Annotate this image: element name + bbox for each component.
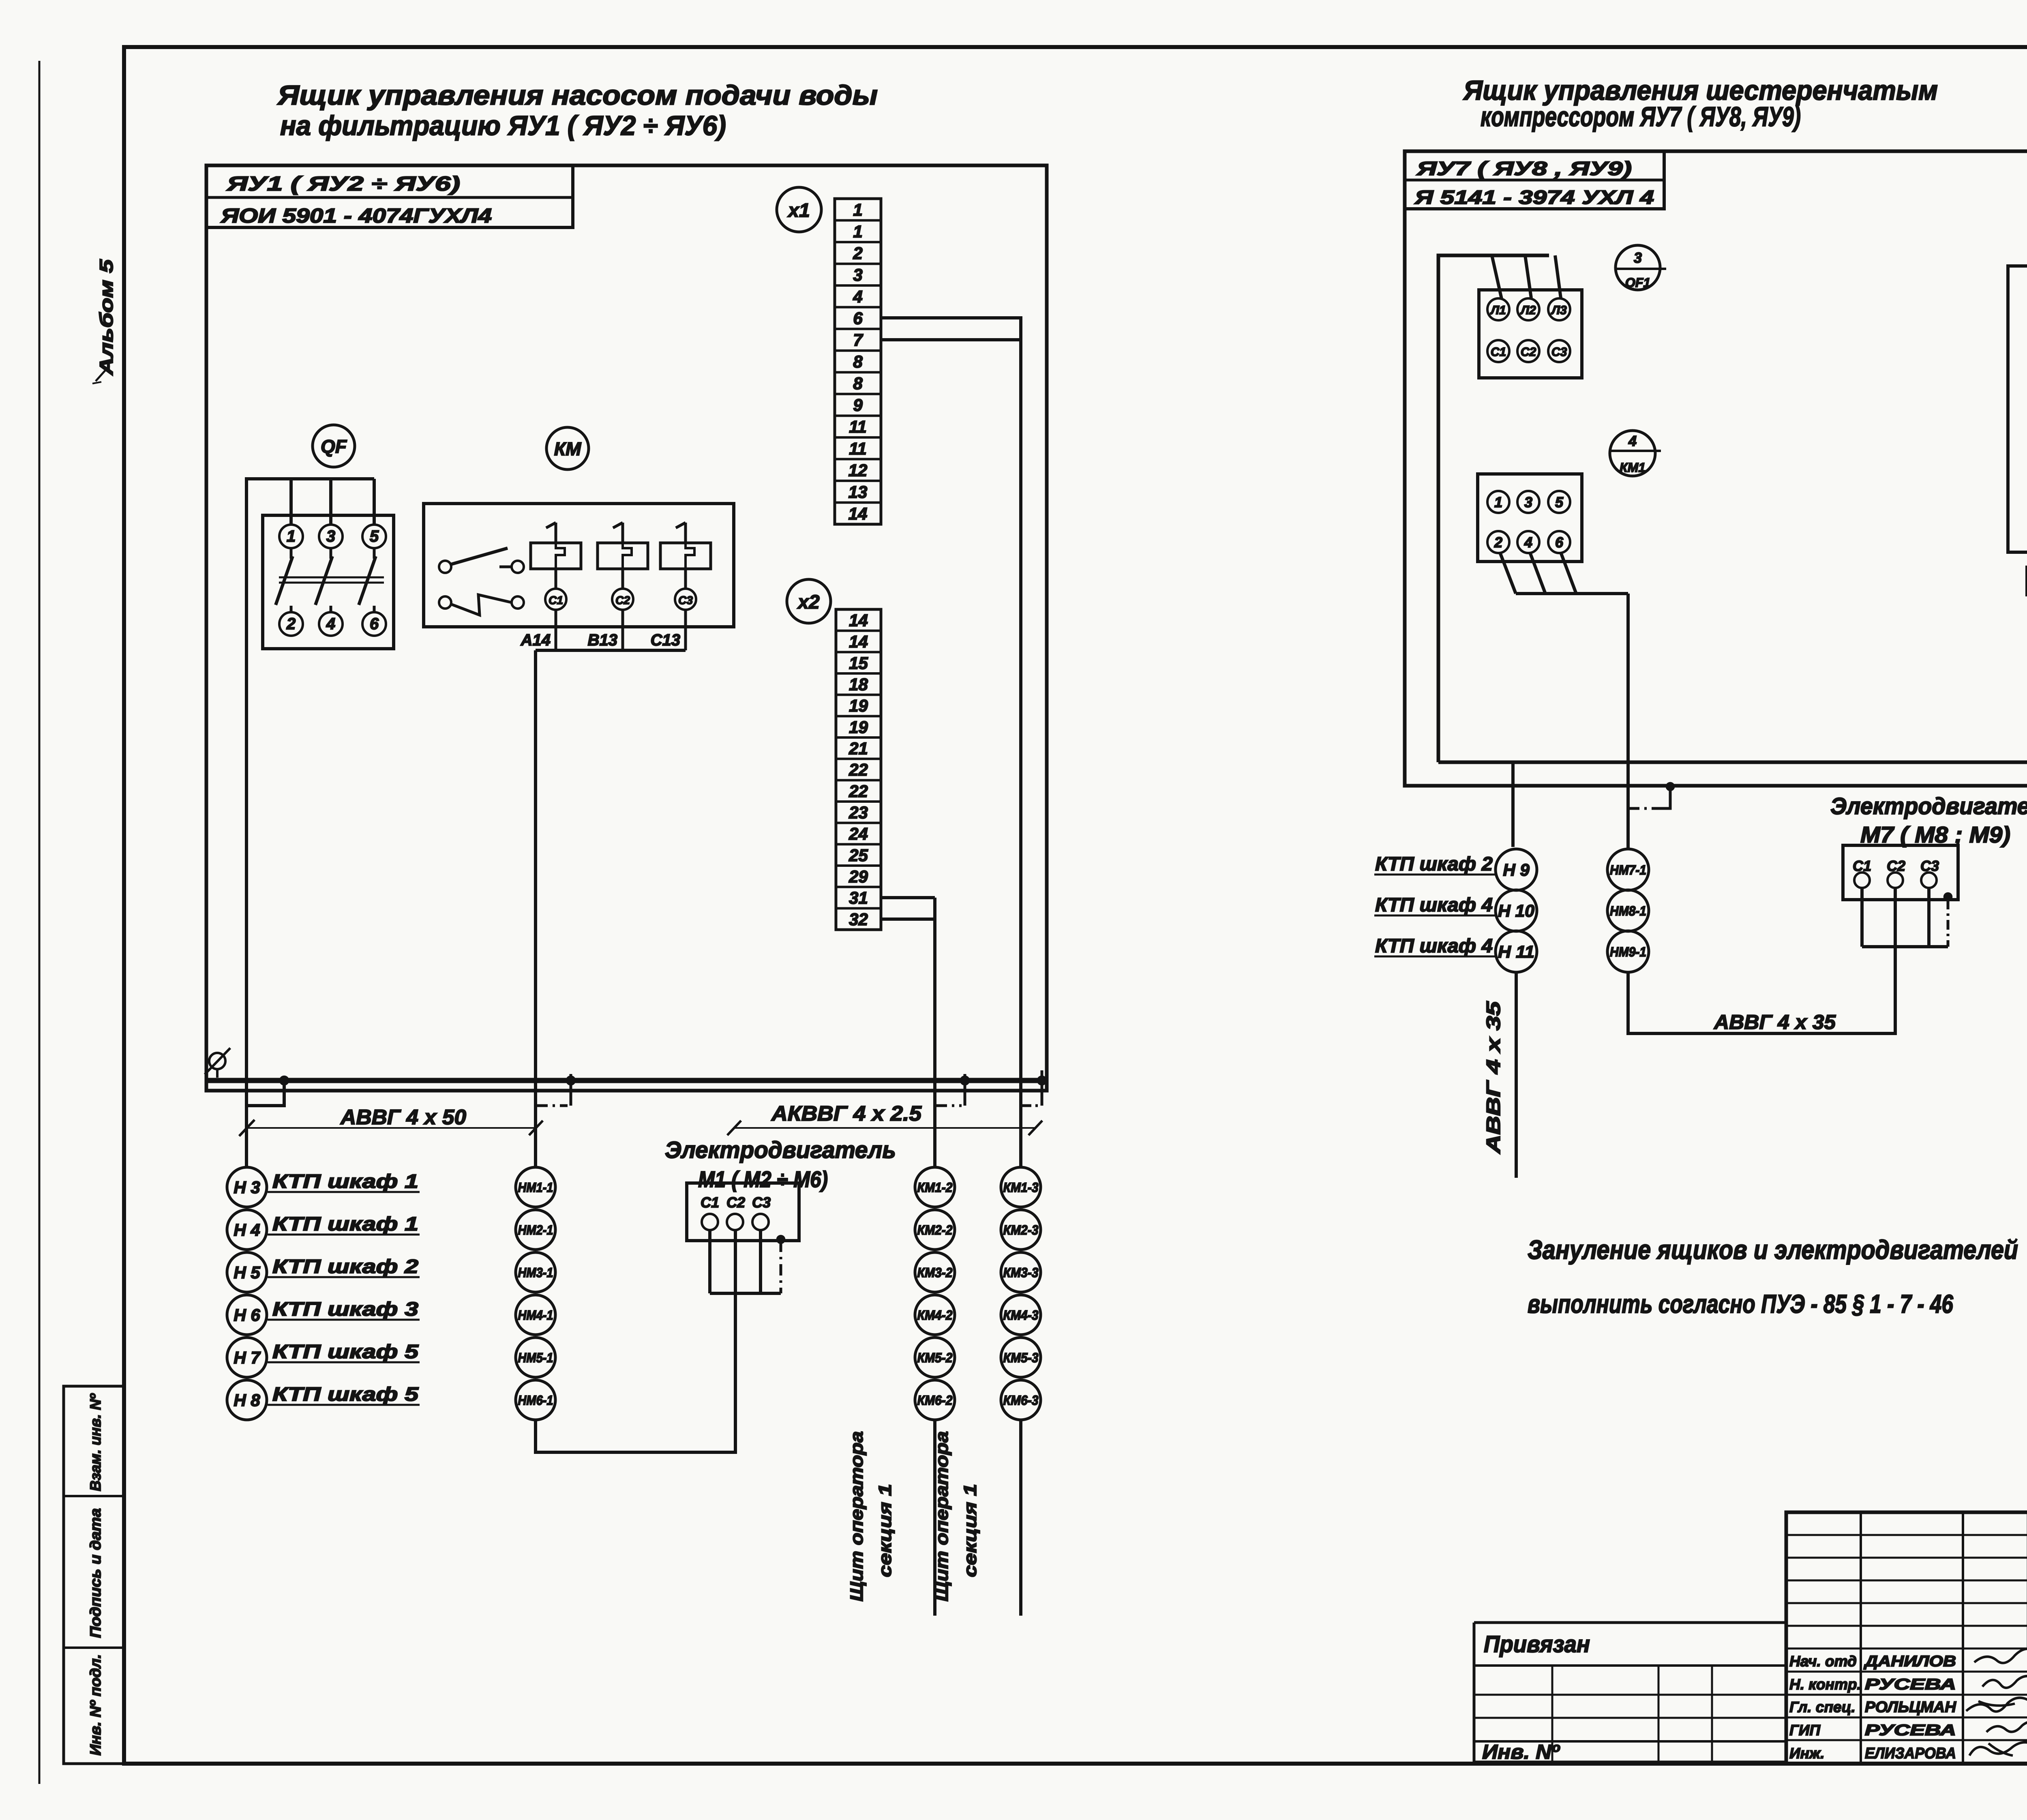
svg-text:22: 22 <box>849 782 868 801</box>
svg-text:9: 9 <box>853 396 863 415</box>
svg-text:КМ1-3: КМ1-3 <box>1003 1180 1039 1195</box>
motor terminal С1 right <box>1853 857 1871 888</box>
svg-text:НМ6-1: НМ6-1 <box>518 1393 553 1408</box>
svg-text:Н. контр.: Н. контр. <box>1789 1676 1861 1693</box>
label box ЯУ1 <box>206 165 573 227</box>
X1 bracket <box>2008 266 2027 552</box>
svg-text:НМ9-1: НМ9-1 <box>1610 944 1646 959</box>
aux contact NC <box>439 595 524 615</box>
cable label АВВГ 4х50 <box>240 1106 543 1135</box>
svg-text:Нач. отд: Нач. отд <box>1789 1653 1857 1670</box>
wire НМ7 column to motor <box>1628 888 1895 1033</box>
svg-text:КМ6-2: КМ6-2 <box>917 1393 953 1408</box>
wire КМ-2 column down <box>933 1420 936 1616</box>
svg-text:3: 3 <box>1634 249 1642 266</box>
PE bus <box>207 1078 1048 1083</box>
svg-text:С2: С2 <box>726 1194 745 1211</box>
svg-text:ЯУ7 ( ЯУ8 , ЯУ9): ЯУ7 ( ЯУ8 , ЯУ9) <box>1416 158 1632 180</box>
svg-text:4: 4 <box>1524 534 1532 551</box>
PE tap cable 4 <box>1021 1070 1042 1106</box>
svg-text:КМ1-2: КМ1-2 <box>917 1180 953 1195</box>
signature 5 <box>1969 1742 2027 1756</box>
title row Гл. спец. РОЛЬЦМАН <box>1789 1699 1957 1716</box>
svg-text:КМ2-3: КМ2-3 <box>1003 1222 1039 1237</box>
attachment table <box>1474 1666 1786 1762</box>
wire КМ-3 column down <box>1019 1420 1022 1616</box>
КМ1 terminal 3 <box>1517 491 1539 513</box>
svg-text:НМ2-1: НМ2-1 <box>518 1222 553 1237</box>
node Щит оператора секция 1 (a) <box>847 1431 895 1601</box>
svg-text:АВВГ 4 х 35: АВВГ 4 х 35 <box>1713 1011 1836 1033</box>
svg-text:13: 13 <box>849 482 868 502</box>
breaker QF box <box>263 515 394 649</box>
svg-text:6: 6 <box>370 615 379 633</box>
PE tap cable 2 <box>536 1074 571 1106</box>
title row Инж. ЕЛИЗАРОВА <box>1789 1745 1956 1762</box>
svg-text:5: 5 <box>1555 494 1564 510</box>
wire X1-7 <box>881 338 1021 341</box>
stamp label Взам. инв.№ <box>87 1393 104 1491</box>
svg-text:1: 1 <box>287 527 296 545</box>
PE tap КМ7-1 cable <box>1628 787 1670 808</box>
node КТП шкаф 5 at y3453 <box>268 1384 420 1405</box>
svg-text:4: 4 <box>1628 433 1637 449</box>
signature 3 <box>1966 1698 2027 1711</box>
wire QF supply top <box>246 479 374 1167</box>
label С13 <box>651 631 680 649</box>
enclosure box ЯУ7 <box>1405 151 2027 786</box>
svg-text:НМ1-1: НМ1-1 <box>518 1180 553 1195</box>
junction supply <box>280 1076 289 1085</box>
label В13 <box>588 631 617 649</box>
svg-text:4: 4 <box>326 615 335 633</box>
svg-text:14: 14 <box>849 504 868 523</box>
svg-text:РУСЕВА: РУСЕВА <box>1865 1676 1956 1693</box>
title row ГИП РУСЕВА <box>1789 1722 1956 1739</box>
terminal С1 QF1 <box>1487 340 1509 362</box>
svg-text:КТП шкаф 4: КТП шкаф 4 <box>1375 935 1493 957</box>
aux contact NO <box>439 548 524 573</box>
svg-text:Л1: Л1 <box>1490 304 1506 317</box>
КМ1 terminal 4 <box>1517 531 1539 553</box>
svg-text:КТП шкаф 5: КТП шкаф 5 <box>272 1384 419 1405</box>
margin label Альбом 5 <box>92 259 117 384</box>
motor M7 box <box>1843 845 1958 900</box>
phase symbol <box>205 1048 230 1078</box>
wire КМ1 collector <box>1516 594 1628 849</box>
left title line 2 <box>280 110 726 141</box>
terminal 3 <box>319 525 343 548</box>
svg-text:14: 14 <box>849 632 868 651</box>
wire drop А3 <box>1555 255 1561 298</box>
node КТП шкаф 1 at y2928 <box>268 1171 420 1192</box>
left title line 1 <box>277 80 878 111</box>
right title line 1 <box>1463 75 1938 106</box>
stamp label Инв. № подл. <box>87 1654 104 1756</box>
svg-text:3: 3 <box>1524 494 1532 510</box>
svg-text:Гл. спец.: Гл. спец. <box>1789 1699 1856 1715</box>
terminal strip label X1 <box>777 187 821 232</box>
svg-text:2: 2 <box>286 615 296 633</box>
svg-text:3: 3 <box>853 265 862 284</box>
svg-text:Н 8: Н 8 <box>234 1391 260 1410</box>
svg-text:21: 21 <box>849 739 868 758</box>
svg-text:КМ1: КМ1 <box>1620 460 1646 475</box>
svg-text:В13: В13 <box>588 631 617 649</box>
node КТП шкаф 2 right at y2145 <box>1374 853 1495 875</box>
title block outer <box>1786 1512 2027 1764</box>
wire drop to pole 5 <box>373 479 376 525</box>
cable markers КМ1-3..КМ6-3 <box>1001 1167 1041 1420</box>
svg-text:Щит оператора: Щит оператора <box>932 1431 952 1601</box>
terminal strip X1 <box>835 199 881 524</box>
title row Нач. отд ДАНИЛОВ <box>1789 1653 1956 1670</box>
label box ЯУ7 <box>1405 151 1664 209</box>
note line 1 <box>1528 1235 2018 1265</box>
node КТП шкаф 5 at y3348 <box>268 1341 420 1363</box>
svg-text:РОЛЬЦМАН: РОЛЬЦМАН <box>1865 1699 1957 1716</box>
svg-text:КМ5-2: КМ5-2 <box>917 1350 953 1365</box>
motor terminal С3 right <box>1920 857 1939 888</box>
svg-text:КМ3-2: КМ3-2 <box>917 1265 953 1280</box>
paper edge line left <box>39 61 41 1784</box>
svg-text:6: 6 <box>853 309 863 328</box>
svg-text:КТП шкаф 4: КТП шкаф 4 <box>1375 894 1493 916</box>
X2 mounting tab <box>2027 567 2027 595</box>
wire to КМ1-3 column <box>1019 340 1022 1167</box>
svg-text:КТП шкаф 5: КТП шкаф 5 <box>272 1341 419 1363</box>
svg-text:С3: С3 <box>1551 345 1567 359</box>
svg-text:ЯОИ 5901 - 4074ГУХЛ4: ЯОИ 5901 - 4074ГУХЛ4 <box>220 204 492 227</box>
node КТП шкаф 2 at y3138 <box>268 1256 420 1278</box>
node КТП шкаф 3 at y3243 <box>268 1299 420 1320</box>
svg-text:11: 11 <box>849 417 867 436</box>
svg-text:КМ2-2: КМ2-2 <box>917 1222 953 1237</box>
stamp box column <box>64 1386 124 1764</box>
terminal А2 <box>1517 298 1539 320</box>
svg-text:Привязан: Привязан <box>1484 1631 1590 1657</box>
svg-text:Н 9: Н 9 <box>1503 860 1530 879</box>
terminal С2 QF1 <box>1517 340 1539 362</box>
svg-text:НМ5-1: НМ5-1 <box>518 1350 553 1365</box>
wire motor С1 right <box>1860 888 1864 947</box>
wire motor С1 <box>708 1230 711 1293</box>
PE to motor frame <box>777 1235 785 1293</box>
terminal 5 <box>362 525 386 548</box>
svg-text:Н 7: Н 7 <box>234 1348 261 1367</box>
cable markers Н3-Н8 <box>227 1167 267 1420</box>
node КТП шкаф 4 right at y2246 <box>1374 894 1495 916</box>
wire motor С1-С3 link right <box>1862 945 1948 948</box>
svg-text:Н 3: Н 3 <box>234 1178 260 1197</box>
contactor КМ1 box <box>1478 474 1582 562</box>
svg-text:А14: А14 <box>521 631 551 649</box>
thermal element С3 <box>660 523 711 650</box>
svg-text:QF1: QF1 <box>1625 275 1650 290</box>
svg-text:Инв. Nº: Инв. Nº <box>1482 1741 1560 1763</box>
svg-text:3: 3 <box>326 527 335 545</box>
svg-text:С1: С1 <box>1491 345 1506 359</box>
breaker label circle QF1 <box>1615 245 1666 290</box>
wire tap to Н9 <box>1511 762 1515 847</box>
КМ1 terminal 6 <box>1548 531 1570 553</box>
cable label АВВГ 4х35 <box>1713 1011 1836 1033</box>
КМ1 terminal 1 <box>1487 491 1509 513</box>
wire НМ column to motor <box>536 1230 735 1452</box>
cable markers КМ1-2..КМ6-2 <box>915 1167 955 1420</box>
right title line 2 <box>1481 101 1801 132</box>
cable markers НМ7-1..НМ9-1 <box>1607 849 1649 972</box>
label А14 <box>521 631 551 649</box>
svg-text:х2: х2 <box>797 592 820 613</box>
cable markers НМ1-1..НМ6-1 <box>516 1167 555 1420</box>
svg-text:НМ7-1: НМ7-1 <box>1610 862 1646 877</box>
svg-text:КТП шкаф 2: КТП шкаф 2 <box>1375 853 1493 875</box>
wire to КМ1-2 column <box>933 898 936 1167</box>
wire X2-32 <box>881 918 935 921</box>
svg-text:6: 6 <box>1555 534 1564 551</box>
svg-text:2: 2 <box>853 244 862 263</box>
enclosure box ЯУ1 <box>206 165 1047 1091</box>
svg-text:32: 32 <box>849 910 868 929</box>
motor label Электродвигатель <box>665 1137 896 1163</box>
svg-text:1: 1 <box>1494 494 1502 510</box>
terminal strip X2 <box>836 609 881 930</box>
thermal element С1 <box>531 523 581 650</box>
contactor KM box <box>424 504 734 627</box>
svg-text:8: 8 <box>853 352 863 371</box>
svg-text:компрессором ЯУ7 ( ЯУ8, ЯУ9: компрессором ЯУ7 ( ЯУ8, ЯУ9) <box>1481 101 1801 132</box>
svg-text:Н 6: Н 6 <box>234 1306 260 1325</box>
junction PE cable 2 <box>566 1076 575 1085</box>
svg-text:7: 7 <box>853 330 863 349</box>
svg-text:секция 1: секция 1 <box>960 1484 980 1577</box>
svg-text:НМ8-1: НМ8-1 <box>1610 903 1646 918</box>
note line 2 <box>1528 1289 1953 1318</box>
signature 2 <box>1982 1676 2027 1688</box>
svg-text:ЯУ1 ( ЯУ2 ÷ ЯУ6): ЯУ1 ( ЯУ2 ÷ ЯУ6) <box>226 172 460 195</box>
svg-text:Н 4: Н 4 <box>234 1220 260 1239</box>
svg-text:24: 24 <box>849 824 868 843</box>
svg-text:19: 19 <box>849 696 868 715</box>
node КТП шкаф 1 at y3033 <box>268 1213 420 1235</box>
svg-text:АКВВГ 4 х 2.5: АКВВГ 4 х 2.5 <box>771 1102 922 1125</box>
svg-text:Щит оператора: Щит оператора <box>847 1431 867 1601</box>
svg-text:31: 31 <box>849 888 868 907</box>
svg-text:23: 23 <box>849 803 868 822</box>
svg-text:Инж.: Инж. <box>1789 1745 1824 1762</box>
PE to motor frame right <box>1944 893 1952 947</box>
wire from КМ1-2 <box>1500 553 1516 594</box>
breaker contact pole 3 <box>315 548 332 612</box>
svg-text:С13: С13 <box>651 631 680 649</box>
breaker contact pole 1 <box>276 548 293 612</box>
svg-text:КМ4-2: КМ4-2 <box>917 1308 953 1323</box>
wire QF1 supply <box>1438 255 1549 762</box>
svg-text:8: 8 <box>853 374 863 393</box>
svg-text:1: 1 <box>853 200 862 219</box>
svg-text:1: 1 <box>853 222 862 241</box>
svg-text:х1: х1 <box>787 200 810 221</box>
cable markers Н9-Н11 <box>1496 849 1537 972</box>
title row Н. контр. РУСЕВА <box>1789 1676 1956 1693</box>
svg-text:С1: С1 <box>549 594 563 607</box>
svg-text:11: 11 <box>849 439 867 458</box>
PE junction КМ7-1 <box>1666 782 1674 791</box>
svg-text:М1 ( М2 ÷ М6): М1 ( М2 ÷ М6) <box>698 1166 828 1192</box>
terminal 4 <box>319 612 343 636</box>
attachment box Привязан <box>1474 1623 1786 1762</box>
svg-text:ГИП: ГИП <box>1789 1722 1821 1739</box>
terminal 6 <box>362 612 386 636</box>
wire drop to pole 1 <box>289 479 293 525</box>
terminal 2 <box>279 612 303 636</box>
svg-text:С2: С2 <box>1521 345 1536 359</box>
node Щит оператора секция 1 (b) <box>932 1431 980 1601</box>
svg-text:КМ4-3: КМ4-3 <box>1003 1308 1039 1323</box>
svg-text:РУСЕВА: РУСЕВА <box>1865 1722 1956 1739</box>
contactor label circle КМ1 <box>1609 431 1661 476</box>
svg-text:Н 10: Н 10 <box>1498 901 1534 920</box>
svg-text:25: 25 <box>849 846 868 865</box>
wire motor С3 right <box>1927 888 1931 947</box>
svg-text:Л2: Л2 <box>1520 304 1536 317</box>
svg-text:КТП шкаф 3: КТП шкаф 3 <box>272 1299 418 1320</box>
svg-text:НМ4-1: НМ4-1 <box>518 1308 553 1323</box>
svg-text:КТП шкаф 2: КТП шкаф 2 <box>272 1256 418 1278</box>
wire drop А2 <box>1525 255 1531 298</box>
svg-text:КТП шкаф 1: КТП шкаф 1 <box>272 1171 418 1192</box>
breaker trip bar <box>279 577 384 583</box>
motor label Электродвигатель right <box>1830 793 2027 819</box>
terminal С3 QF1 <box>1548 340 1570 362</box>
cable label АКВВГ 4х2.5 <box>727 1102 1042 1135</box>
terminal А1 <box>1487 298 1509 320</box>
breaker QF1 box <box>1479 290 1582 378</box>
svg-text:Подпись и дата: Подпись и дата <box>87 1508 104 1638</box>
signature 4 <box>1986 1721 2027 1732</box>
title block mini rows <box>1786 1535 2027 1649</box>
svg-text:5: 5 <box>370 527 379 545</box>
svg-text:18: 18 <box>849 675 868 694</box>
motor M1 box <box>687 1183 799 1241</box>
motor terminal С2 <box>726 1194 745 1230</box>
svg-text:на фильтрацию ЯУ1 ( ЯУ2 ÷: на фильтрацию ЯУ1 ( ЯУ2 ÷ ЯУ6) <box>280 110 726 141</box>
contactor label circle KM <box>546 427 589 469</box>
svg-text:НМ3-1: НМ3-1 <box>518 1265 553 1280</box>
wire Н column down <box>1515 972 1518 1178</box>
svg-text:14: 14 <box>849 611 868 630</box>
svg-text:С2: С2 <box>615 594 630 607</box>
stamp label Подпись и дата <box>87 1508 104 1638</box>
svg-text:КМ5-3: КМ5-3 <box>1003 1350 1039 1365</box>
wire X1-6 <box>881 318 1021 340</box>
svg-text:29: 29 <box>849 867 868 886</box>
motor label М1 (М2-М6) <box>698 1166 828 1192</box>
motor label М7 (М8; М9) <box>1860 822 2010 847</box>
svg-text:Альбом 5: Альбом 5 <box>96 259 117 375</box>
КМ1 terminal 5 <box>1548 491 1570 513</box>
svg-text:КТП шкаф 1: КТП шкаф 1 <box>272 1213 418 1235</box>
breaker contact pole 5 <box>359 548 376 612</box>
wire from КМ1-4 <box>1530 553 1545 594</box>
КМ1 terminal 2 <box>1487 531 1509 553</box>
svg-text:22: 22 <box>849 760 868 779</box>
wire supply bottom run <box>1438 416 2027 762</box>
svg-text:19: 19 <box>849 718 868 737</box>
svg-text:Я 5141 - 3974 УХЛ 4: Я 5141 - 3974 УХЛ 4 <box>1414 187 1654 208</box>
svg-text:Зануление ящиков и электр: Зануление ящиков и электродвигателей <box>1528 1235 2018 1265</box>
svg-text:М7 ( М8 ; М9): М7 ( М8 ; М9) <box>1860 822 2010 847</box>
svg-text:АВВГ 4 х 50: АВВГ 4 х 50 <box>340 1106 466 1129</box>
junction PE cable 4 <box>1037 1076 1046 1085</box>
svg-text:КМ: КМ <box>554 438 582 459</box>
svg-text:С3: С3 <box>678 594 693 607</box>
wire drop А1 <box>1492 255 1502 299</box>
label Инв. № <box>1482 1741 1560 1763</box>
wire motor С1-С3 link <box>710 1292 781 1295</box>
svg-text:секция 1: секция 1 <box>875 1484 895 1577</box>
svg-text:КМ6-3: КМ6-3 <box>1003 1393 1039 1408</box>
signature 1 <box>1974 1649 2027 1663</box>
title block signature rows <box>1786 1672 2027 1740</box>
terminal strip label X2 <box>787 579 831 623</box>
wire from КМ1-6 <box>1561 553 1576 594</box>
motor terminal С1 <box>701 1194 719 1230</box>
wire drop to pole 3 <box>329 479 332 525</box>
svg-text:12: 12 <box>849 461 868 480</box>
svg-text:QF: QF <box>321 436 347 457</box>
svg-text:Электродвигатель: Электродвигатель <box>1830 793 2027 819</box>
junction PE cable 3 <box>960 1076 969 1085</box>
svg-text:ЕЛИЗАРОВА: ЕЛИЗАРОВА <box>1865 1745 1956 1762</box>
PE tap cable 3 <box>935 1074 965 1106</box>
svg-text:выполнить согласно ПУЭ -: выполнить согласно ПУЭ - 85 § 1 - 7 - 46 <box>1528 1289 1953 1318</box>
svg-text:Электродвигатель: Электродвигатель <box>665 1137 896 1163</box>
svg-text:Л3: Л3 <box>1551 304 1567 317</box>
motor terminal С3 <box>752 1194 771 1230</box>
svg-text:КМ3-3: КМ3-3 <box>1003 1265 1039 1280</box>
wire supply jog <box>246 1080 284 1106</box>
svg-text:ДАНИЛОВ: ДАНИЛОВ <box>1863 1653 1956 1670</box>
cable label АВВГ 4х35 vertical <box>1483 1001 1504 1154</box>
svg-text:Взам. инв. Nº: Взам. инв. Nº <box>87 1393 104 1491</box>
thermal element С2 <box>598 523 648 650</box>
cable break mark 1 <box>239 1120 255 1136</box>
wire KM collector <box>536 650 686 1167</box>
title block verticals <box>1861 1512 2027 1764</box>
motor terminal С2 right <box>1887 857 1905 888</box>
svg-text:Н 11: Н 11 <box>1498 942 1534 961</box>
svg-text:Н 5: Н 5 <box>234 1263 260 1282</box>
breaker label circle QF <box>313 425 355 467</box>
svg-text:Инв. Nº подл.: Инв. Nº подл. <box>87 1654 104 1756</box>
svg-text:АВВГ 4 х 35: АВВГ 4 х 35 <box>1483 1001 1504 1154</box>
terminal 1 <box>279 525 303 548</box>
svg-text:С3: С3 <box>752 1194 771 1211</box>
svg-text:15: 15 <box>849 654 868 673</box>
svg-text:2: 2 <box>1494 534 1502 551</box>
svg-text:Ящик управления насосом по: Ящик управления насосом подачи воды <box>277 80 878 111</box>
wire motor С3 <box>759 1230 762 1293</box>
node КТП шкаф 4 right at y2347 <box>1374 935 1495 957</box>
svg-text:4: 4 <box>853 287 862 306</box>
wire X2-31 <box>881 896 935 899</box>
terminal А3 <box>1548 298 1570 320</box>
svg-text:С1: С1 <box>701 1194 719 1211</box>
